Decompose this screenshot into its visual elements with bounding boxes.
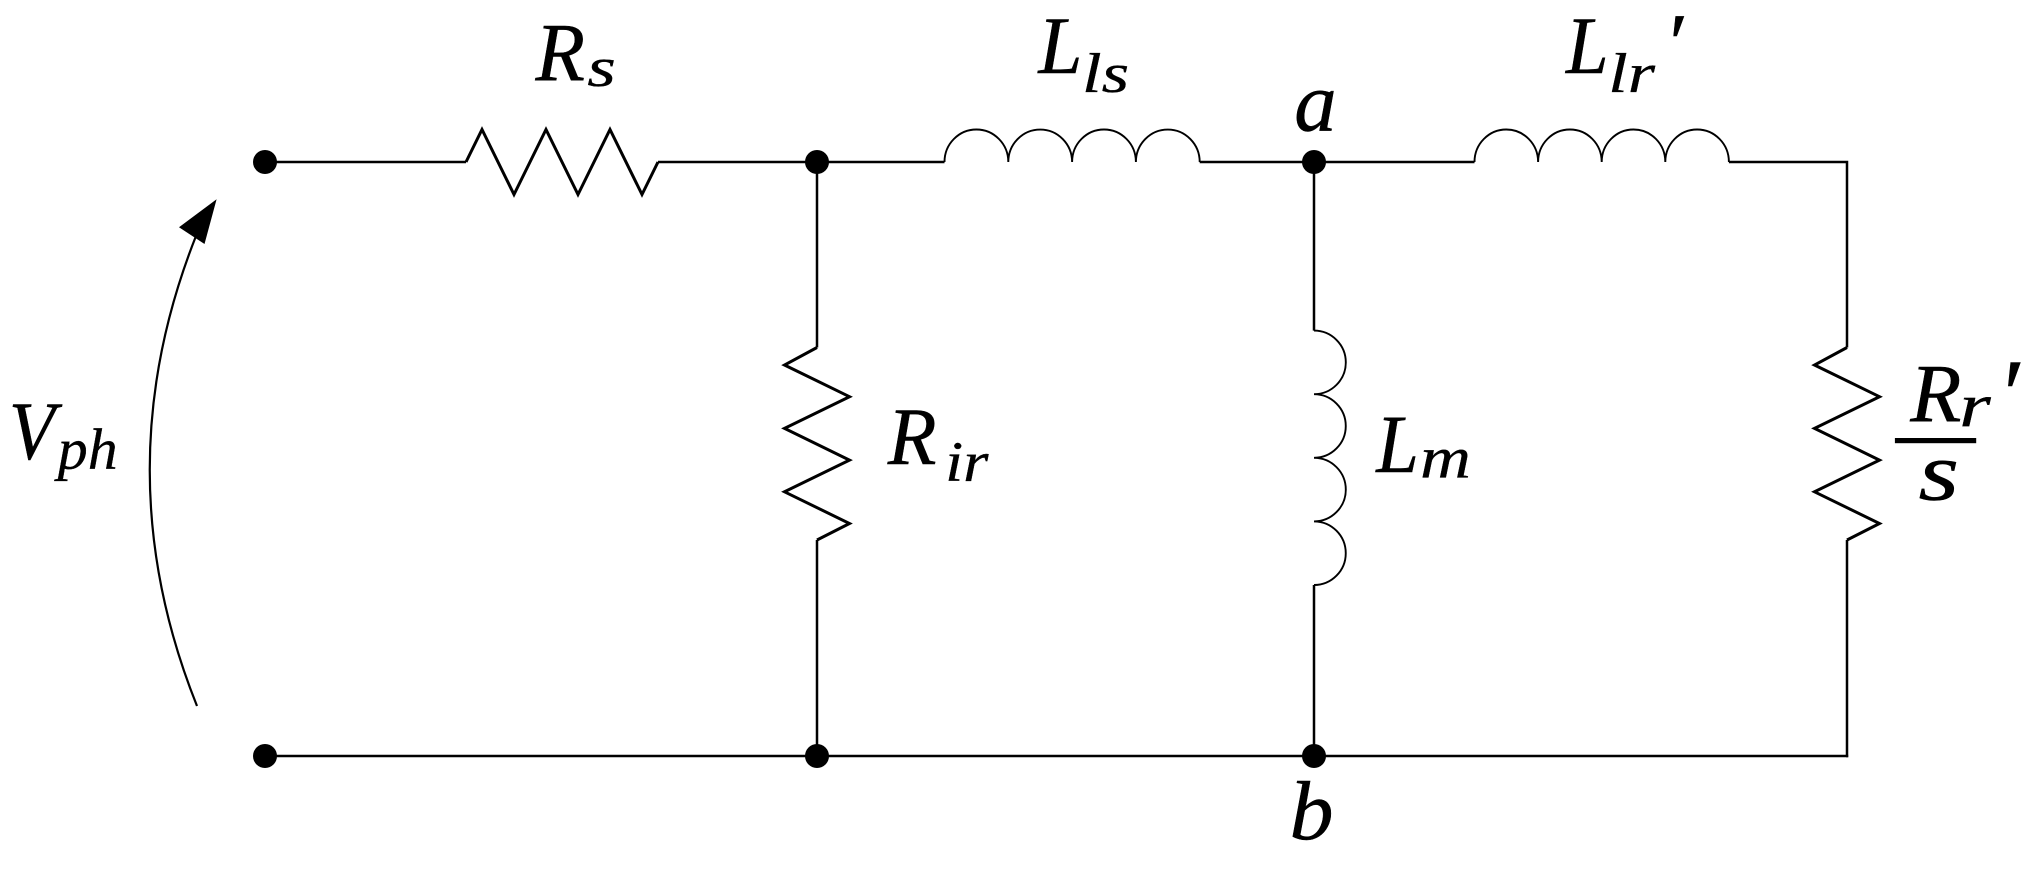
Vph arrowhead: [179, 199, 217, 244]
wire: Lm to node b: [1313, 585, 1316, 756]
wire: middle branch lower (Rir to bottom rail): [816, 540, 819, 756]
svg-text:s: s: [1918, 426, 1959, 517]
svg-text:L: L: [1037, 1, 1082, 91]
terminal dot top-left: [253, 150, 277, 174]
wire bottom rail: [265, 755, 1848, 758]
wire: Rs to node junction and on to Lls: [658, 161, 945, 164]
svg-text:R: R: [887, 392, 937, 482]
node B dot: [1302, 744, 1326, 768]
fraction bar: [1895, 438, 1976, 443]
resistor R2 (Rr'/s) vertical zigzag: [1815, 348, 1880, 541]
svg-text:R: R: [535, 7, 585, 99]
Vph arrow arc: [150, 236, 197, 706]
wire top: left terminal to Rs: [265, 161, 466, 164]
svg-text:′: ′: [1664, 0, 1684, 90]
svg-text:′: ′: [1997, 339, 2021, 450]
terminal dot bottom-left: [253, 744, 277, 768]
svg-text:r: r: [1959, 371, 1992, 440]
svg-text:ph: ph: [54, 416, 118, 481]
svg-text:L: L: [1375, 399, 1419, 490]
resistor R3 (Rir) vertical zigzag: [785, 348, 850, 541]
resistor R1 (Rs) zigzag: [466, 130, 658, 195]
node A dot: [1302, 150, 1326, 174]
wire: Llr' to top-right corner and down to resistor: [1729, 162, 1847, 348]
svg-text:ir: ir: [945, 431, 990, 495]
svg-text:s: s: [587, 37, 616, 99]
svg-text:lr: lr: [1608, 41, 1655, 104]
wire right branch lower to bottom-right corner: [1846, 540, 1847, 756]
svg-text:a: a: [1294, 56, 1336, 150]
inductor L2 (Llr'): [1475, 129, 1729, 162]
wire: middle branch upper (junction to Rir): [816, 162, 819, 348]
inductor L3 (Lm) vertical: [1314, 331, 1346, 585]
inductor L1 (Lls): [945, 129, 1200, 162]
svg-text:b: b: [1289, 765, 1333, 857]
svg-text:L: L: [1565, 1, 1609, 92]
svg-text:ls: ls: [1082, 42, 1129, 105]
junction top middle: [805, 150, 829, 174]
svg-text:m: m: [1420, 425, 1471, 491]
wire: node a down to Lm: [1313, 162, 1316, 331]
wire: Lls through node a to Llr: [1200, 161, 1475, 164]
junction bottom middle: [805, 744, 829, 768]
svg-text:V: V: [9, 387, 63, 478]
